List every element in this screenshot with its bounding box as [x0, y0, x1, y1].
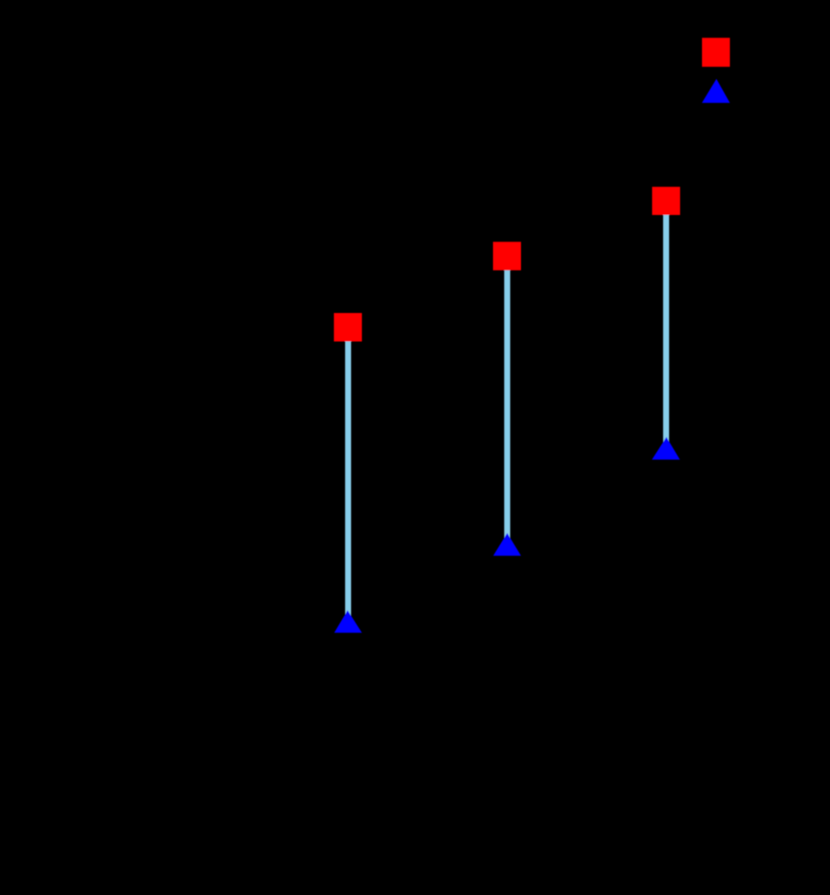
wire: connector line series point 3: [663, 201, 669, 451]
marker: red square point 1: [334, 313, 362, 342]
marker: red square point 3: [652, 187, 680, 215]
legend: blue triangle: [702, 79, 730, 103]
marker: red square point 2: [493, 242, 521, 270]
marker: blue triangle point 1: [334, 610, 362, 633]
wire: connector line series point 2: [504, 256, 510, 547]
legend: red square: [702, 38, 730, 67]
marker: blue triangle point 2: [493, 533, 521, 556]
marker: blue triangle point 3: [652, 437, 680, 460]
wire: connector line series point 1: [345, 327, 351, 624]
